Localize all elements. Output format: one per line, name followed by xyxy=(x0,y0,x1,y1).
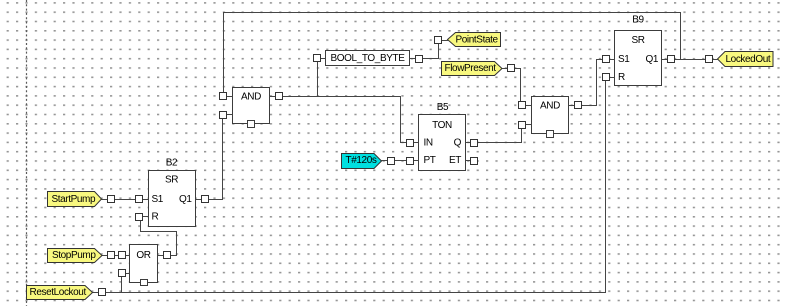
function block SR B2 xyxy=(149,158,196,227)
wire BOOL_TO_BYTE output to PointState xyxy=(423,44,439,59)
AND U3 input pin 1 xyxy=(519,102,532,109)
svg-text:S1: S1 xyxy=(618,54,630,65)
svg-text:B9: B9 xyxy=(632,15,644,26)
SR B9 pin R xyxy=(603,74,615,81)
svg-text:StopPump: StopPump xyxy=(52,250,96,261)
svg-text:B5: B5 xyxy=(437,102,449,113)
BOOL_TO_BYTE input pin xyxy=(314,55,326,62)
BOOL_TO_BYTE output pin xyxy=(410,56,423,63)
output tag LockedOut xyxy=(718,52,774,67)
wire ResetLockout rail to B9 R xyxy=(93,81,606,293)
AND U1 input pin 2 xyxy=(220,112,233,119)
wire T#120s to TON PT xyxy=(382,160,407,162)
svg-text:Q1: Q1 xyxy=(645,54,658,65)
svg-text:R: R xyxy=(618,72,625,83)
svg-text:LockedOut: LockedOut xyxy=(726,54,771,65)
svg-text:OR: OR xyxy=(136,250,150,261)
svg-text:AND: AND xyxy=(540,101,560,112)
wire branch up to BOOL_TO_BYTE input xyxy=(317,62,319,97)
svg-text:R: R xyxy=(152,212,159,223)
input tag StopPump xyxy=(48,249,103,263)
wire TON Q to AND2 input2 xyxy=(478,129,522,143)
svg-text:AND: AND xyxy=(241,92,261,103)
svg-text:TON: TON xyxy=(432,120,452,131)
TON B5 pin Q xyxy=(466,140,478,147)
svg-text:StartPump: StartPump xyxy=(52,194,96,205)
SR B9 pin S1 xyxy=(603,56,615,63)
wire StartPump to B2 S1 xyxy=(102,199,136,201)
svg-text:FlowPresent: FlowPresent xyxy=(445,63,497,74)
svg-text:SR: SR xyxy=(165,175,178,186)
T#120s pin square xyxy=(388,158,395,165)
wire OR output to B2 R xyxy=(141,221,177,256)
svg-text:T#120s: T#120s xyxy=(346,155,377,166)
SR B2 pin S1 xyxy=(136,196,149,203)
LockedOut pin square xyxy=(706,56,719,63)
wire AND1 output to TON IN xyxy=(283,97,407,143)
svg-text:Q1: Q1 xyxy=(179,194,192,205)
svg-text:PT: PT xyxy=(424,155,436,166)
function block BOOL_TO_BYTE xyxy=(326,51,410,66)
svg-text:SR: SR xyxy=(631,35,644,46)
function block SR B9 xyxy=(615,15,662,86)
input tag StartPump xyxy=(48,192,102,207)
AND U1 output pin xyxy=(270,93,283,100)
TON B5 pin ET xyxy=(466,158,478,165)
wire AND2 output to B9 S1 xyxy=(582,60,603,106)
SR B2 pin Q1 xyxy=(196,196,209,203)
OR U2 input pin 2 xyxy=(119,270,130,277)
function block TON B5 xyxy=(419,102,466,170)
OR U2 input pin 1 xyxy=(119,252,130,259)
SR B9 pin Q1 xyxy=(662,56,675,63)
svg-text:BOOL_TO_BYTE: BOOL_TO_BYTE xyxy=(331,53,406,64)
ResetLockout pin square xyxy=(99,289,106,296)
output tag PointState xyxy=(448,33,501,47)
wire B9 Q1 to LockedOut xyxy=(675,59,706,61)
svg-text:IN: IN xyxy=(424,138,433,149)
input tag FlowPresent xyxy=(442,62,503,76)
svg-text:ET: ET xyxy=(449,155,461,166)
wire StopPump to OR input1 xyxy=(102,255,119,257)
svg-text:ResetLockout: ResetLockout xyxy=(30,287,87,298)
wire B2 Q1 up to AND1 input2 xyxy=(209,119,223,200)
TON B5 pin IN xyxy=(407,140,419,147)
wire FlowPresent to AND2 input1 xyxy=(515,69,521,102)
svg-text:PointState: PointState xyxy=(456,34,499,45)
AND U1 input pin 1 xyxy=(220,93,233,100)
function block AND U3 xyxy=(532,97,569,138)
wire feedback rail from B9.Q1 to AND1 input1 xyxy=(224,13,681,93)
constant tag T#120s xyxy=(342,154,382,169)
svg-text:Q: Q xyxy=(454,138,462,149)
wire OR input2 down to reset rail xyxy=(121,277,123,293)
AND U3 input pin 2 xyxy=(519,122,532,129)
SR B2 pin R xyxy=(136,214,149,221)
TON B5 pin PT xyxy=(407,158,419,165)
function block AND U1 xyxy=(233,88,270,128)
PointState pin square xyxy=(435,37,449,44)
StartPump pin square xyxy=(108,196,115,203)
StopPump pin square xyxy=(108,252,115,259)
svg-text:S1: S1 xyxy=(152,194,164,205)
OR U2 output pin xyxy=(158,252,171,259)
svg-text:B2: B2 xyxy=(166,158,178,169)
AND U3 output pin xyxy=(569,102,582,109)
FlowPresent pin square xyxy=(502,65,515,72)
input tag ResetLockout xyxy=(27,286,93,300)
function block OR U2 xyxy=(130,245,158,286)
